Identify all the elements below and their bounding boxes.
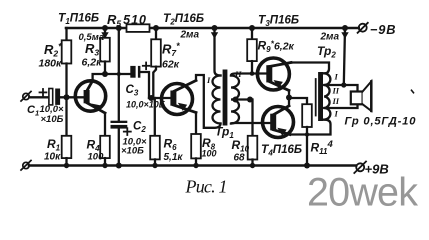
node input terminal — [21, 92, 31, 102]
svg-text:100: 100 — [88, 152, 105, 163]
transformer Tr2 core — [318, 72, 323, 121]
svg-text:II: II — [332, 96, 340, 106]
svg-text:Рис. 1: Рис. 1 — [185, 176, 227, 196]
svg-text:I: I — [206, 75, 211, 85]
node R11 crossing — [305, 132, 309, 136]
wire top rail — [66, 27, 359, 30]
node T3-T4 — [286, 95, 292, 101]
node T2 base junction — [148, 95, 154, 101]
svg-text:Т4П16Б: Т4П16Б — [261, 142, 302, 158]
svg-text:×10Б: ×10Б — [121, 146, 144, 157]
node C2 bottom — [116, 163, 122, 169]
resistor R8 — [191, 113, 201, 166]
wire -9V drop — [341, 28, 348, 85]
wire T3 collector to Tr2 top — [291, 63, 329, 74]
svg-text:I: I — [334, 72, 339, 82]
resistor R10 — [248, 136, 258, 166]
resistor R5 — [127, 24, 150, 32]
svg-text:10к: 10к — [44, 152, 61, 163]
svg-text:20wek: 20wek — [307, 171, 418, 214]
svg-text:II: II — [332, 86, 340, 96]
wire Tr1 feed from rail — [211, 28, 221, 76]
svg-text:Т2П16Б: Т2П16Б — [163, 11, 204, 27]
node tap right — [247, 97, 253, 103]
wire T2 collector to Tr1 — [196, 75, 221, 128]
node R9 top — [249, 25, 255, 31]
node R3 top — [102, 25, 108, 31]
transformer Tr1 winding I — [213, 76, 221, 124]
svg-text:100: 100 — [202, 149, 217, 159]
svg-text:180к: 180к — [39, 58, 63, 70]
capacitor C2 — [111, 28, 131, 166]
svg-text:2ма: 2ма — [320, 32, 340, 43]
transformer Tr1 core — [223, 70, 228, 126]
transistor T2 — [162, 81, 197, 115]
node tap left — [233, 97, 239, 103]
wire C1 to base — [60, 96, 84, 98]
transformer Tr2 winding — [324, 73, 330, 119]
wire speaker top tap — [324, 85, 357, 92]
node -9V terminal — [358, 23, 368, 33]
wire T4 emitter to Tr2 bottom — [290, 120, 331, 135]
svg-text:Т3П16Б: Т3П16Б — [258, 13, 299, 29]
transistor T1 — [75, 81, 105, 113]
node -9V rail — [342, 25, 348, 31]
speck — [412, 90, 414, 93]
node ground terminal — [21, 161, 31, 171]
node -9V tap — [341, 82, 346, 87]
svg-text:5,1к: 5,1к — [164, 152, 184, 163]
resistor R3 — [100, 28, 110, 74]
node base T1 junction — [64, 94, 70, 100]
svg-text:Гр 0,5ГД-10: Гр 0,5ГД-10 — [345, 116, 417, 128]
wire Tr1 II bottom to T4 base — [231, 122, 271, 125]
wire bottom rail — [29, 164, 356, 167]
svg-text:68: 68 — [234, 153, 246, 164]
transistor T3 — [257, 58, 291, 91]
svg-text:R9*6,2к: R9*6,2к — [258, 39, 295, 55]
node R5 right — [153, 25, 159, 31]
resistor R9 — [247, 28, 257, 74]
transistor T4 — [263, 106, 294, 138]
svg-text:62к: 62к — [162, 59, 180, 71]
resistor R2 — [62, 28, 72, 97]
node C2 top — [116, 25, 122, 31]
capacitor C3 — [130, 63, 149, 78]
node R3 bottom — [102, 71, 108, 77]
wire T2 base line — [149, 97, 171, 99]
wire T1 collector line — [93, 74, 131, 81]
speaker Gr 0.5GD-10 — [351, 81, 372, 111]
resistor R6 — [150, 98, 160, 166]
svg-text:10,0×10Б: 10,0×10Б — [126, 100, 166, 110]
wire speaker bottom tap — [324, 104, 357, 108]
wire Tr1 center tap to R10 — [235, 100, 253, 136]
svg-text:II: II — [234, 69, 242, 79]
svg-text:2ма: 2ма — [180, 30, 200, 41]
resistor R1 — [62, 97, 72, 165]
node +9V terminal — [354, 162, 366, 174]
resistor R4 — [100, 113, 110, 166]
node rail dots bottom — [64, 163, 255, 168]
svg-text:−9В: −9В — [370, 22, 396, 37]
svg-text:×10Б: ×10Б — [41, 114, 64, 125]
node R9 bottom — [250, 71, 255, 76]
wire T3 emitter / T4 collector node — [288, 91, 290, 106]
svg-text:Т1П16Б: Т1П16Б — [58, 11, 99, 27]
transformer Tr1 winding II — [231, 76, 239, 124]
resistor R7 — [151, 28, 161, 98]
wire input — [29, 96, 49, 98]
capacitor C1 — [40, 89, 61, 105]
node C2 crossing — [117, 72, 121, 76]
svg-text:6,2к: 6,2к — [82, 57, 103, 69]
wire Tr1 II top to T3 base — [231, 74, 267, 76]
svg-text:R5510: R5510 — [107, 12, 147, 29]
resistor R11 — [289, 98, 312, 166]
node Tr1 feed — [212, 25, 218, 31]
svg-text:I: I — [334, 109, 339, 119]
wire C3 to T2 base — [140, 72, 149, 98]
node R11 bottom — [304, 163, 310, 169]
